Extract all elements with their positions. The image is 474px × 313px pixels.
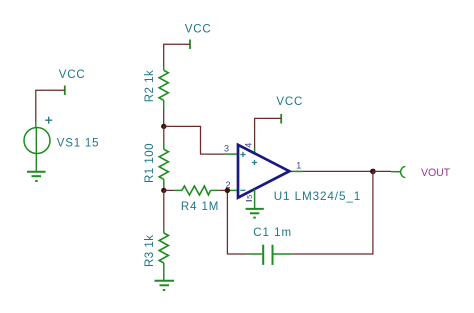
voltage source VS1	[24, 117, 52, 154]
power terminal VCC (left)	[64, 86, 66, 96]
svg-text:1: 1	[296, 160, 301, 170]
resistor R1 100	[159, 126, 168, 188]
wire junction to VOUT terminal	[373, 170, 391, 172]
svg-text:C1 1m: C1 1m	[253, 227, 292, 239]
svg-text:VOUT: VOUT	[421, 167, 451, 179]
wire op-amp pin 1 to output junction	[303, 170, 373, 172]
svg-text:3: 3	[224, 143, 229, 153]
pin 2 stub	[227, 189, 236, 191]
wire node B (pin 2) down to C1	[227, 190, 247, 254]
non-inverting input marker +	[240, 154, 245, 156]
output terminal VOUT (arc)	[401, 166, 406, 177]
svg-text:R2 1k: R2 1k	[144, 70, 156, 103]
junction node B	[161, 188, 166, 193]
wire node A to op-amp pin 3	[164, 126, 226, 154]
svg-text:VCC: VCC	[185, 24, 212, 36]
svg-text:4: 4	[243, 143, 253, 148]
wire VCC terminal to VS1	[36, 90, 65, 122]
svg-text:R4 1M: R4 1M	[181, 201, 219, 213]
junction node A	[161, 124, 166, 129]
capacitor C1 1m	[248, 245, 293, 265]
resistor R4 1M	[164, 186, 228, 195]
junction pin 2 node	[225, 188, 230, 193]
pin 4 stub	[254, 148, 256, 153]
negative supply marker -	[246, 200, 252, 202]
ground (below VS1)	[27, 154, 46, 182]
svg-text:VS1 15: VS1 15	[57, 138, 100, 150]
svg-text:VCC: VCC	[59, 69, 86, 81]
svg-text:5: 5	[245, 195, 254, 199]
svg-text:R1 100: R1 100	[144, 143, 156, 183]
svg-text:R3 1k: R3 1k	[144, 234, 156, 267]
power terminal VCC (R2)	[189, 40, 191, 50]
power terminal VCC (op-amp)	[280, 114, 282, 124]
wire VCC terminal to R2	[164, 44, 190, 66]
op-amp body triangle	[238, 145, 289, 198]
positive supply marker +	[252, 162, 257, 164]
wire R2 to node A	[163, 109, 165, 126]
junction node VOUT	[370, 169, 376, 175]
wire VCC terminal to op-amp pin 4	[255, 118, 282, 148]
pin 3 stub	[226, 153, 237, 155]
ground (below R3)	[155, 281, 175, 290]
resistor R2 1k	[159, 66, 168, 109]
op-amp U1	[224, 143, 303, 209]
inverting input marker -	[240, 189, 245, 191]
svg-text:U1 LM324/5_1: U1 LM324/5_1	[274, 190, 361, 203]
svg-text:VCC: VCC	[276, 96, 303, 108]
wire output junction down to C1	[292, 171, 373, 254]
ground (op-amp negative supply)	[246, 209, 264, 218]
resistor R3 1k	[159, 190, 168, 280]
pin 1 stub	[290, 170, 304, 172]
negative supply pin stub	[254, 189, 256, 209]
